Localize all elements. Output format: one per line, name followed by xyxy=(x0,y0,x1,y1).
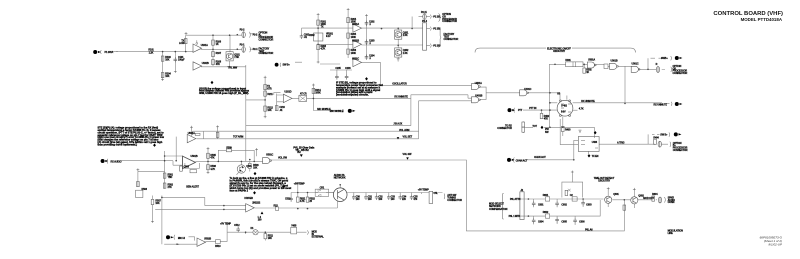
svg-text:100K: 100K xyxy=(351,36,357,39)
svg-text:47K: 47K xyxy=(210,156,214,159)
svg-text:MOD OUT: MOD OUT xyxy=(643,197,654,200)
svg-text:TOT ARM: TOT ARM xyxy=(233,136,243,139)
svg-text:CHAN ACT: CHAN ACT xyxy=(534,156,546,159)
svg-text:P2-4: P2-4 xyxy=(422,20,427,23)
svg-text:7.5K: 7.5K xyxy=(234,56,239,59)
svg-text:C604: C604 xyxy=(538,220,544,223)
svg-text:C503: C503 xyxy=(184,166,190,169)
svg-text:RX UNMUTE: RX UNMUTE xyxy=(581,100,595,103)
svg-text:CIRCUITRY: CIRCUITRY xyxy=(553,50,566,53)
svg-text:R107: R107 xyxy=(216,52,222,55)
svg-text:U101B: U101B xyxy=(202,62,209,65)
svg-text:U201A: U201A xyxy=(352,23,359,26)
svg-text:P2 203: P2 203 xyxy=(433,44,441,47)
svg-text:U301A: U301A xyxy=(588,58,595,61)
svg-text:CONNECTOR: CONNECTOR xyxy=(259,39,274,42)
svg-text:10K: 10K xyxy=(268,237,272,240)
svg-text:100K: 100K xyxy=(315,91,321,94)
svg-text:R503: R503 xyxy=(142,188,148,191)
svg-text:COMPENSATION: COMPENSATION xyxy=(489,208,508,211)
svg-text:SW B+: SW B+ xyxy=(283,64,291,67)
svg-text:10K: 10K xyxy=(253,167,257,170)
svg-text:CONNECTOR: CONNECTOR xyxy=(497,127,512,130)
svg-text:4.7K: 4.7K xyxy=(210,168,215,171)
svg-text:C5L: C5L xyxy=(434,192,439,195)
svg-text:ATR: ATR xyxy=(267,88,272,91)
svg-text:VOL SW: VOL SW xyxy=(403,153,413,156)
svg-text:EXTERNAL: EXTERNAL xyxy=(312,235,325,238)
svg-text:(modulation/pulse) circuits.: (modulation/pulse) circuits. xyxy=(336,94,369,97)
svg-text:RX UNMUTE: RX UNMUTE xyxy=(394,96,408,99)
svg-text:U401A: U401A xyxy=(475,82,482,85)
svg-text:CONNECTOR: CONNECTOR xyxy=(673,72,688,75)
svg-text:1.2K: 1.2K xyxy=(149,52,154,55)
svg-text:P2 202: P2 202 xyxy=(433,27,441,30)
svg-text:10K: 10K xyxy=(155,202,159,205)
svg-text:RX UNMUTE: RX UNMUTE xyxy=(654,103,668,106)
svg-text:U101A: U101A xyxy=(201,44,208,47)
svg-text:4.7K: 4.7K xyxy=(321,47,326,50)
svg-text:1K: 1K xyxy=(586,71,589,74)
svg-text:U301C: U301C xyxy=(632,63,639,66)
svg-text:4.7K: 4.7K xyxy=(300,200,305,203)
svg-text:TX EN: TX EN xyxy=(592,155,599,158)
svg-text:U403: U403 xyxy=(592,141,598,144)
svg-text:U301B: U301B xyxy=(611,60,618,63)
svg-text:U502B: U502B xyxy=(204,237,211,240)
svg-text:R202: R202 xyxy=(309,34,315,37)
svg-text:P6L A6: P6L A6 xyxy=(585,228,593,231)
svg-text:DRIVER: DRIVER xyxy=(244,197,253,200)
svg-text:Y455: Y455 xyxy=(291,224,297,227)
svg-text:P1 201A: P1 201A xyxy=(105,51,114,54)
svg-text:27K: 27K xyxy=(168,186,172,189)
svg-text:T RL MW: T RL MW xyxy=(228,67,238,70)
svg-text:47K: 47K xyxy=(544,118,548,121)
svg-text:U201B: U201B xyxy=(352,39,359,42)
svg-text:R404: R404 xyxy=(653,137,659,140)
svg-text:R211: R211 xyxy=(267,93,273,96)
svg-text:P6L 1 MTR: P6L 1 MTR xyxy=(509,215,521,218)
svg-text:MODEL PTTD4018A: MODEL PTTD4018A xyxy=(741,17,783,22)
svg-text:AT CR: AT CR xyxy=(300,93,307,96)
svg-text:100pF: 100pF xyxy=(178,58,185,61)
svg-text:U501A: U501A xyxy=(188,132,195,135)
svg-text:U501B: U501B xyxy=(191,155,198,158)
svg-text:R301: R301 xyxy=(565,59,571,62)
svg-text:CR1: CR1 xyxy=(320,186,325,189)
svg-text:+5V TEMP: +5V TEMP xyxy=(418,189,429,192)
svg-text:PTT IN: PTT IN xyxy=(529,107,536,110)
svg-text:100K: 100K xyxy=(351,52,357,55)
svg-text:VOL SET: VOL SET xyxy=(403,136,413,139)
svg-text:CONNECTOR: CONNECTOR xyxy=(259,52,274,55)
svg-text:P2 201: P2 201 xyxy=(433,15,441,18)
svg-text:P2-1: P2-1 xyxy=(253,48,258,51)
svg-text:MIC MOBILE: MIC MOBILE xyxy=(330,110,344,113)
svg-text:C605: C605 xyxy=(561,220,567,223)
svg-text:P2-2: P2-2 xyxy=(240,28,245,31)
svg-text:R509: R509 xyxy=(226,146,232,149)
svg-text:TBD: TBD xyxy=(168,176,173,179)
svg-text:Q601: Q601 xyxy=(613,193,619,196)
svg-text:+5V TEMP: +5V TEMP xyxy=(220,223,231,226)
svg-text:C602: C602 xyxy=(561,203,567,206)
svg-text:R601: R601 xyxy=(543,194,549,197)
svg-text:R510: R510 xyxy=(215,245,221,248)
svg-text:RX AUDIO: RX AUDIO xyxy=(111,161,122,164)
svg-text:P2-2: P2-2 xyxy=(253,34,258,37)
svg-text:J B AUX: J B AUX xyxy=(393,123,402,126)
svg-text:U401C: U401C xyxy=(524,88,531,91)
svg-text:C603: C603 xyxy=(586,203,592,206)
svg-text:4.7K: 4.7K xyxy=(579,107,584,110)
svg-text:C520: C520 xyxy=(285,198,291,201)
svg-text:C606: C606 xyxy=(579,220,585,223)
svg-text:U201C: U201C xyxy=(352,57,359,60)
svg-text:40W, U1000 PIN 13 goes high (P: 40W, U1000 PIN 13 goes high (P_RL_MW). xyxy=(199,92,249,95)
svg-text:R604: R604 xyxy=(652,193,658,196)
svg-text:P2-11: P2-11 xyxy=(421,11,428,14)
svg-text:TX: TX xyxy=(321,25,324,28)
svg-text:PTT: PTT xyxy=(518,109,523,112)
svg-text:face at PA/Pin 2: face at PA/Pin 2 xyxy=(230,189,249,192)
svg-text:1.5K: 1.5K xyxy=(403,34,408,37)
svg-text:OSCILLATOR: OSCILLATOR xyxy=(392,82,407,85)
svg-text:5 0V: 5 0V xyxy=(561,111,566,114)
svg-text:LINE: LINE xyxy=(668,232,674,235)
svg-text:thus providing on/off hysteres: thus providing on/off hysteresis.) xyxy=(98,143,138,146)
svg-text:1K: 1K xyxy=(216,43,219,46)
svg-text:C601: C601 xyxy=(538,203,544,206)
svg-text:CHAN ACT: CHAN ACT xyxy=(516,159,528,162)
svg-text:CONNECTOR: CONNECTOR xyxy=(673,149,688,152)
svg-text:10K: 10K xyxy=(267,109,271,112)
svg-text:CONNECTOR: CONNECTOR xyxy=(442,20,457,23)
svg-text:U201D: U201D xyxy=(284,91,291,94)
svg-text:VOL ARM: VOL ARM xyxy=(399,129,409,132)
svg-text:C206: C206 xyxy=(345,67,351,70)
svg-text:LOW: LOW xyxy=(179,42,185,45)
svg-text:10K: 10K xyxy=(165,75,169,78)
svg-text:Q501: Q501 xyxy=(246,165,252,168)
svg-text:U501C: U501C xyxy=(266,153,273,156)
svg-text:CONNECTOR: CONNECTOR xyxy=(444,38,459,41)
svg-text:CONNECTOR: CONNECTOR xyxy=(447,199,462,202)
svg-text:1.5K: 1.5K xyxy=(403,52,408,55)
svg-text:+5V TEMP: +5V TEMP xyxy=(294,183,305,186)
svg-text:U 402: U 402 xyxy=(561,105,568,108)
svg-text:MIC HI: MIC HI xyxy=(178,237,185,240)
svg-text:2N2222: 2N2222 xyxy=(252,202,261,205)
svg-text:R602: R602 xyxy=(543,211,549,214)
svg-text:9.1V: 9.1V xyxy=(326,35,331,38)
svg-text:SWB+: SWB+ xyxy=(661,57,668,60)
svg-text:8/1/02-UP: 8/1/02-UP xyxy=(768,243,782,247)
svg-text:CONN: CONN xyxy=(668,201,675,204)
svg-text:GEN ALERT: GEN ALERT xyxy=(186,185,200,188)
svg-text:P6L ATTN: P6L ATTN xyxy=(510,198,521,201)
svg-text:C512: C512 xyxy=(234,224,240,227)
svg-text:VOL SW: VOL SW xyxy=(278,156,288,159)
svg-text:TOT: TOT xyxy=(532,125,537,128)
svg-text:47K: 47K xyxy=(216,63,220,66)
svg-text:U401B: U401B xyxy=(475,95,482,98)
svg-text:R403: R403 xyxy=(565,129,571,132)
svg-text:CIRCUITRY: CIRCUITRY xyxy=(598,179,611,182)
svg-text:P2-1: P2-1 xyxy=(240,44,245,47)
svg-text:SW B+: SW B+ xyxy=(660,133,668,136)
svg-text:A TRIG: A TRIG xyxy=(617,141,625,144)
svg-text:NETWORK: NETWORK xyxy=(334,177,346,180)
svg-text:10K: 10K xyxy=(165,58,169,61)
svg-text:C205: C205 xyxy=(335,67,341,70)
